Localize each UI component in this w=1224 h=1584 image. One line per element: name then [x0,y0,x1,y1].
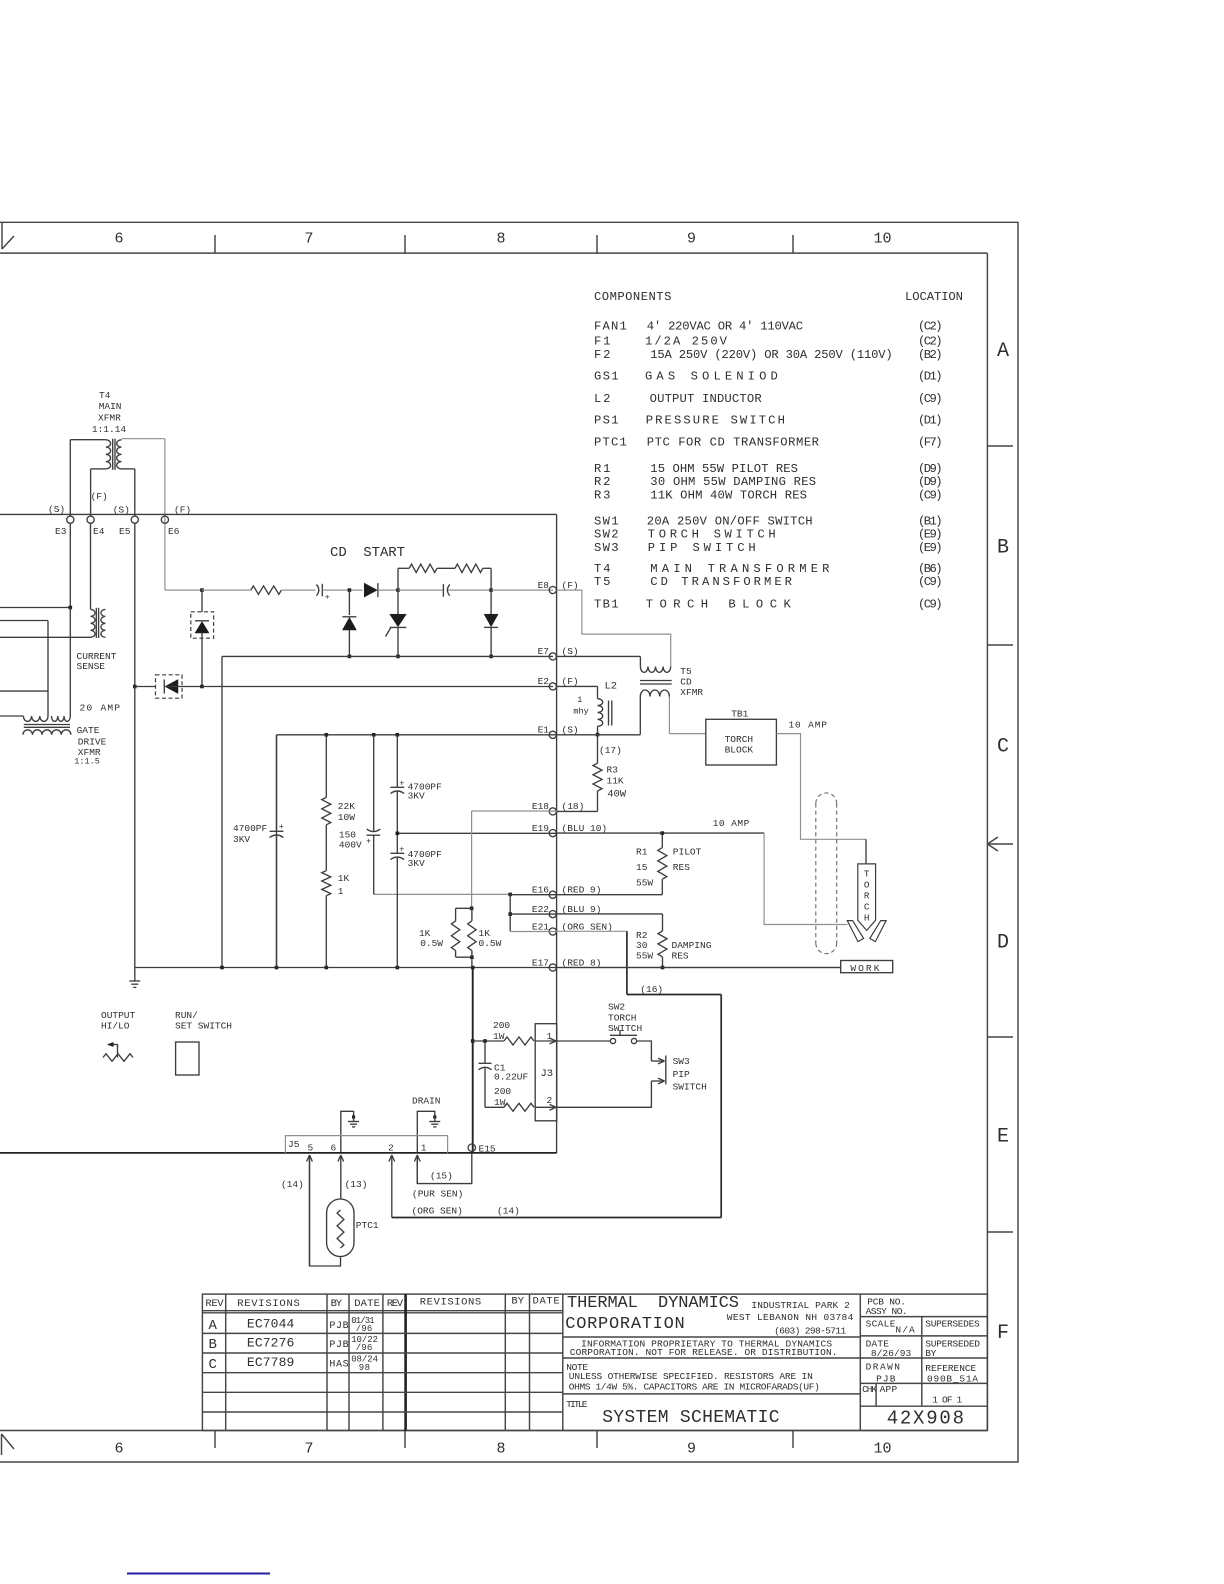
svg-text:2: 2 [388,1143,394,1154]
svg-text:SW2: SW2 [608,1002,625,1013]
svg-text:15A 250V (220V) OR 30A 250V (1: 15A 250V (220V) OR 30A 250V (110V) [650,348,892,362]
wire T4 secondary top lead [122,438,165,440]
capacitor C-up 4700PF 3KV [390,786,404,788]
wire CD branch down-right [490,568,492,590]
svg-text:8: 8 [496,1441,505,1458]
svg-text:APP: APP [880,1384,898,1395]
svg-text:(D9): (D9) [918,462,943,476]
svg-text:HI/LO: HI/LO [101,1021,130,1032]
boxed diode CR-a (cathode up) [191,612,214,638]
svg-text:SWITCH: SWITCH [608,1023,642,1034]
resistor 1K 1 [322,871,331,896]
wire main low line [0,1152,557,1154]
bottom-left corner arrow [1,1434,3,1455]
svg-text:(F): (F) [174,504,191,515]
wire 1K right bottom lead [471,951,473,968]
svg-text:(RED 8): (RED 8) [562,957,602,968]
svg-text:7: 7 [304,1441,313,1458]
svg-text:L2: L2 [594,392,610,406]
wire E3 vertical [69,440,71,516]
svg-text:B: B [209,1337,217,1353]
svg-text:(F): (F) [562,676,579,687]
top band tick 7/8 [404,235,406,253]
svg-text:6: 6 [331,1143,337,1154]
svg-text:1W: 1W [493,1031,505,1042]
wire R1 bottom lead [661,879,663,895]
svg-text:6: 6 [114,1441,123,1458]
svg-text:(PUR SEN): (PUR SEN) [412,1189,463,1200]
svg-text:SENSE: SENSE [77,661,106,672]
svg-text:(C2): (C2) [918,335,943,349]
svg-text:(S): (S) [562,725,579,736]
junction gnd/1Kpair [471,966,475,970]
svg-text:GS1: GS1 [594,370,619,384]
inductor L2 core [608,701,610,726]
svg-text:20 AMP: 20 AMP [80,702,121,713]
terminal E18 [549,808,556,815]
resistor 1K 0.5W left [451,921,459,951]
wire junction down to boxed diode [201,590,203,612]
top-left corner arrow [1,222,3,249]
svg-text:(E9): (E9) [918,528,943,542]
svg-text:F2: F2 [594,348,610,362]
svg-text:SYSTEM SCHEMATIC: SYSTEM SCHEMATIC [602,1408,779,1428]
svg-text:10W: 10W [338,812,355,823]
wire T5 secondary left lead [639,697,641,735]
svg-text:/96: /96 [356,1343,373,1353]
svg-text:(B2): (B2) [918,348,943,362]
title row [563,1393,861,1395]
torch wing left [847,921,863,942]
diode CD D-b (to E7 line, pointing up) [342,618,356,631]
bottom band tick 6/7 [214,1431,216,1449]
svg-text:0.5W: 0.5W [479,938,502,949]
svg-text:11K OHM 40W TORCH RES: 11K OHM 40W TORCH RES [650,488,807,502]
svg-text:REVISIONS: REVISIONS [420,1297,481,1309]
svg-text:L2: L2 [605,680,618,692]
bus vertical [556,514,558,1153]
wire 22K-1K link [325,825,327,871]
svg-text:C: C [209,1357,217,1373]
svg-text:WEST LEBANON NH 03784: WEST LEBANON NH 03784 [727,1312,854,1323]
svg-text:(ORG SEN): (ORG SEN) [562,921,613,932]
terminal E19 [549,830,556,837]
svg-text:(14): (14) [281,1179,304,1190]
junction R1 top [661,831,665,835]
row tick B/C [987,644,1013,646]
svg-text:E17: E17 [532,957,549,968]
top band tick 8/9 [596,235,598,253]
wire 150cap top lead [373,735,375,832]
wire T4 primary bottom to E4 [91,468,106,470]
switch SW2 contact b [631,1038,636,1043]
wire E7 corner vertical [221,656,223,967]
svg-text:F1: F1 [594,335,610,349]
svg-text:9: 9 [687,1441,696,1458]
svg-text:R1: R1 [636,846,648,857]
wire boxed diode to E2 line [201,633,203,687]
svg-text:8: 8 [496,231,505,248]
wire gate-drive winding A right lead [47,621,49,717]
svg-text:SWITCH: SWITCH [673,1082,707,1093]
svg-text:(D1): (D1) [918,414,943,428]
wire E18 line left (gray) [472,810,557,812]
terminal E7 [549,653,556,660]
svg-text:UNLESS OTHERWISE SPECIFIED. RE: UNLESS OTHERWISE SPECIFIED. RESISTORS AR… [569,1371,813,1382]
svg-text:BLOCK: BLOCK [725,744,754,755]
junction E2/E5 [133,685,137,689]
svg-text:+: + [399,845,404,855]
wire diode Db top lead [348,590,350,615]
block WORK [841,961,893,973]
svg-text:B: B [997,536,1009,559]
junction L2/E1/R3 [596,733,600,737]
wire CD main line segment 1 (gray) [202,589,251,591]
svg-text:11K: 11K [607,776,624,787]
resistor R3 [593,763,602,791]
wire diode Dc bottom lead [490,628,492,656]
svg-text:E21: E21 [532,921,549,932]
svg-text:RES: RES [672,951,689,962]
svg-text:ASSY NO.: ASSY NO. [866,1306,908,1317]
svg-text:(15): (15) [430,1171,453,1182]
current sense core [95,608,97,638]
svg-text:(C9): (C9) [918,392,943,406]
junction 1K pair top [470,907,474,911]
bottom band inner line [0,1430,987,1432]
resistor R1 [658,848,667,880]
svg-text:98: 98 [359,1363,370,1373]
wire E7 to T5 primary left [557,655,641,657]
svg-text:090B_51A: 090B_51A [927,1374,978,1385]
wire J5-1 to E15 loop [417,1153,472,1184]
svg-text:SW2: SW2 [594,528,619,542]
capacitor 150 400V [367,829,381,832]
wire E16 line left (gray) [374,893,511,895]
wire E5 vertical upper [134,469,136,516]
wire E16-E22 vertical [509,894,511,931]
wire current sense bottom to off-page [0,636,91,638]
svg-text:9: 9 [687,231,696,248]
pin J5-5 arrow [309,1155,311,1266]
svg-text:EC7276: EC7276 [247,1336,294,1351]
wire R3 bottom lead [597,791,599,811]
svg-text:1:1.5: 1:1.5 [74,757,100,767]
wire SW3 to J3-2 [557,1081,652,1107]
svg-text:O: O [864,880,870,891]
svg-text:10: 10 [873,231,891,248]
block TB1 [706,719,777,765]
junction CD main 0 [348,588,352,592]
capacitor C-left 4700PF 3KV [276,735,278,832]
svg-text:R3: R3 [594,488,610,502]
svg-text:T4: T4 [99,390,111,401]
wire net16 bottom run [392,1217,721,1219]
wire PTC1 bottom loop [310,1158,341,1266]
svg-text:1: 1 [338,886,344,897]
wire E1 line [277,734,641,736]
svg-text:SUPERSEDES: SUPERSEDES [925,1318,980,1329]
wire off-page at y607 [0,607,70,609]
svg-text:E6: E6 [168,526,180,537]
svg-text:mhy: mhy [573,706,588,716]
svg-text:15 OHM 55W PILOT RES: 15 OHM 55W PILOT RES [650,462,798,476]
terminal E16 [549,891,556,898]
terminal E22 [549,911,556,918]
svg-text:PTC1: PTC1 [356,1220,379,1231]
svg-text:+: + [399,779,404,789]
svg-text:(F): (F) [562,580,579,591]
pin SW3 arrow top [651,1060,664,1062]
svg-text:8/26/93: 8/26/93 [871,1348,912,1359]
svg-text:E7: E7 [538,646,549,657]
svg-text:4' 220VAC OR 4' 110VAC: 4' 220VAC OR 4' 110VAC [647,320,803,334]
transformer T4 core [112,439,114,470]
svg-text:REV: REV [387,1298,404,1310]
switch RUN/SET box [176,1042,199,1075]
capacitor CD C-a (polarized) [316,585,318,596]
gate drive xfmr secondary winding [23,730,71,735]
svg-text:J5: J5 [288,1139,300,1150]
inductor L2 winding [598,699,603,727]
svg-text:1:1.14: 1:1.14 [92,424,127,435]
svg-text:1: 1 [577,695,582,705]
svg-text:OUTPUT: OUTPUT [101,1010,136,1021]
svg-text:E3: E3 [55,526,67,537]
svg-text:(B6): (B6) [918,562,943,576]
gate drive xfmr winding A [23,716,48,721]
svg-text:PS1: PS1 [594,414,619,428]
svg-text:E1: E1 [538,725,550,736]
resistor R2 [658,931,667,957]
svg-text:(D9): (D9) [918,475,943,489]
wire CD branch top right [483,567,491,569]
svg-text:SET SWITCH: SET SWITCH [175,1021,232,1032]
resistor 200 1W top [504,1037,534,1045]
junction 1K pair bottom [470,955,474,959]
torch pennant [858,864,876,931]
svg-text:TITLE: TITLE [566,1399,587,1410]
svg-text:(C9): (C9) [918,597,943,611]
svg-text:(S): (S) [562,646,579,657]
wire gate-drive winding B right lead [69,608,71,717]
resistor CD R-b [409,564,437,572]
svg-text:D: D [997,931,1009,954]
wire ground bus E17 line [135,967,841,969]
svg-text:5: 5 [308,1143,314,1154]
svg-text:TB1: TB1 [594,597,619,611]
svg-text:CD START: CD START [330,545,405,561]
svg-text:3KV: 3KV [233,834,250,845]
svg-text:BY: BY [925,1348,936,1359]
wire 4700pf-1 top lead [396,735,398,788]
svg-text:DATE: DATE [354,1298,380,1310]
row tick D/E [987,1036,1013,1038]
svg-text:MAIN: MAIN [99,401,122,412]
wire E2 to L2 [557,685,598,687]
bottom band tick 7/8 [404,1431,406,1449]
svg-text:PJB: PJB [329,1321,348,1332]
svg-text:(C2): (C2) [918,320,943,334]
wire diode to junction [378,589,398,591]
pin J5-6 arrow [340,1155,342,1199]
switch SW2 contact a [610,1038,615,1043]
svg-text:T5: T5 [680,666,692,677]
svg-text:(17): (17) [599,745,622,756]
wire T4 secondary bottom to E5 [122,468,135,470]
svg-text:E: E [997,1125,1009,1148]
pin J5-1 arrow [416,1155,418,1184]
svg-text:0.22UF: 0.22UF [494,1072,529,1083]
junction CD feed [200,588,204,592]
svg-text:T4: T4 [594,562,610,576]
wire E6 vertical (gray) [164,439,166,590]
svg-text:E22: E22 [532,904,549,915]
wire E5 below [134,523,136,687]
junction E22 left [508,912,512,916]
wire R1 top lead [661,833,663,848]
svg-text:(B1): (B1) [918,515,943,529]
svg-text:4700PF: 4700PF [233,823,268,834]
top band inner line [0,252,987,254]
terminal E5 [131,516,138,523]
svg-text:E2: E2 [538,676,550,687]
wire 4700pf mid link [396,791,398,853]
drawing outer border top/right/bottom [0,222,1018,1462]
svg-text:F: F [997,1322,1009,1345]
capacitor C-dn 4700PF 3KV [390,852,404,854]
wire E3 below [69,523,71,608]
current sense secondary winding [101,609,106,637]
svg-text:E4: E4 [93,526,105,537]
wire SCR bottom lead [397,628,399,656]
svg-text:EC7789: EC7789 [247,1355,294,1370]
svg-text:E15: E15 [479,1144,496,1155]
svg-text:PTC1: PTC1 [594,436,627,450]
junction E1/4700pf [396,733,400,737]
wire SCR top lead [397,590,399,614]
svg-text:(13): (13) [345,1179,368,1190]
svg-text:(RED 9): (RED 9) [562,885,602,896]
svg-text:20A 250V ON/OFF SWITCH: 20A 250V ON/OFF SWITCH [647,515,813,529]
svg-text:SCALE: SCALE [866,1318,896,1329]
svg-text:FAN1: FAN1 [594,320,627,334]
svg-text:6: 6 [114,231,123,248]
wire TB1 to torch top [776,734,866,840]
svg-text:+: + [366,836,371,846]
svg-text:1/2A 250V: 1/2A 250V [645,335,728,349]
potentiometer OUTPUT HI/LO [108,1044,118,1046]
wire 473 vertical bold [472,968,474,1154]
top band tick 6/7 [214,235,216,253]
junction gnd/22K [325,966,329,970]
svg-text:SW3: SW3 [673,1056,690,1067]
svg-text:(C9): (C9) [918,488,943,502]
wire cap2 to junction2 (gray) [448,589,491,591]
wire T5 secondary right lead [668,697,670,734]
junction CD main 2 [489,588,493,592]
svg-text:A: A [997,340,1009,363]
terminal E2 [549,683,556,690]
pin J5-2 arrow [391,1155,393,1218]
svg-text:(S): (S) [113,504,130,515]
transformer T5 primary winding [640,667,670,673]
wire CD branch top 1 [398,567,409,569]
wire E7 line [222,655,553,657]
wire diode Db bottom lead [348,630,350,656]
bottom band tick 9/10 [792,1431,794,1449]
transformer T5 secondary winding [640,690,669,697]
resistor CD R-a [251,586,282,594]
wire E-row horizontal [0,513,557,515]
wire C1 branch upper [484,1041,486,1063]
wire E1 left corner down [276,735,278,968]
ground symbol drain-left [352,1115,355,1118]
svg-text:200: 200 [493,1020,510,1031]
svg-text:RES: RES [673,862,690,873]
junction at E3 wire [69,606,73,610]
wire E19 to torch wing [764,833,847,924]
wire 150cap bottom lead [373,835,375,894]
wire E18 vertical (gray) [471,811,473,908]
row C/D match arrow [987,843,1013,845]
wire E18 line right [557,810,598,812]
wire to cap (gray) [281,589,315,591]
svg-text:CD: CD [680,677,692,688]
wire E19 line left [397,832,556,834]
wire off-page at y620 [0,620,48,622]
svg-text:(ORG SEN): (ORG SEN) [412,1206,463,1217]
terminal E1 [549,731,556,738]
junction E1/22K [325,733,329,737]
wire CD branch top mid [437,567,455,569]
svg-text:PRESSURE SWITCH: PRESSURE SWITCH [646,414,785,428]
capacitor CD C-b (non-polar) [442,584,444,597]
wire 1K bottom lead [325,896,327,968]
gate drive xfmr core [24,724,70,726]
bottom band tick 8/9 [596,1431,598,1449]
top band tick 9/10 [792,235,794,253]
svg-text:(E9): (E9) [918,541,943,555]
resistor 200 1W bottom [504,1103,534,1111]
ground symbol main [134,968,136,982]
svg-text:400V: 400V [339,840,362,851]
inner border right vertical [986,253,988,1430]
terminal E6 [161,516,168,523]
transformer T5 core [640,680,672,682]
junction 200-1W top [471,1039,475,1043]
svg-text:55W: 55W [636,877,653,888]
svg-text:(D1): (D1) [918,370,943,384]
svg-text:T5: T5 [594,575,610,589]
svg-text:C: C [864,902,870,913]
svg-text:(F7): (F7) [918,436,943,450]
svg-text:REV: REV [205,1298,224,1310]
wire net16 across [627,994,721,996]
svg-text:1K: 1K [338,873,350,884]
svg-text:+: + [279,822,284,832]
capacitor C1 0.22UF [479,1062,492,1064]
diode CD D-a (series) [364,583,377,597]
svg-text:10 AMP: 10 AMP [789,719,828,730]
resistor CD R-c [455,564,483,572]
wire cap to diode (gray) [322,589,362,591]
svg-text:(18): (18) [562,801,585,812]
wire R3 top lead [597,735,599,763]
svg-text:DRAIN: DRAIN [412,1096,441,1107]
wire T4 primary top to E3 [70,439,106,441]
svg-text:(F): (F) [91,491,108,502]
